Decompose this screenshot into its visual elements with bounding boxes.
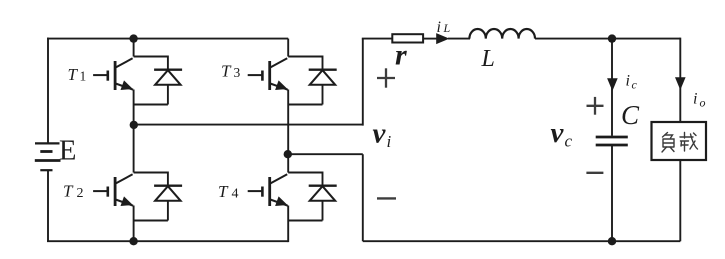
wire: load branch down to load box	[679, 38, 681, 122]
label vc plus	[587, 97, 604, 115]
svg-text:c: c	[632, 78, 638, 92]
svg-text:i: i	[626, 73, 630, 90]
wire: T3 collector leg	[287, 39, 289, 57]
wire: resistor to arrow	[423, 38, 437, 40]
wire: T1 emitter to mid-rail node	[133, 90, 135, 125]
wire: T4 emitter to bottom rail corner	[287, 206, 289, 243]
wire: mid rail to right vertical (vi +)	[134, 124, 363, 126]
wire: junction to right lower vertical (vi -)	[288, 153, 363, 155]
svg-text:T: T	[221, 62, 232, 81]
wire: T2 emitter to bottom rail	[133, 206, 135, 242]
wire: T2 collector leg	[133, 125, 135, 173]
node: top rail / T1 collector junction	[129, 34, 137, 42]
svg-text:o: o	[700, 96, 706, 110]
label vi plus	[377, 68, 395, 87]
transistor T4	[248, 174, 288, 206]
wire: top segment to resistor	[362, 38, 393, 40]
wire: arrow to inductor	[448, 38, 470, 40]
svg-text:T: T	[63, 182, 74, 201]
label load 负载	[662, 133, 698, 153]
label vc minus	[586, 172, 603, 174]
load box (fu zai)	[652, 122, 707, 160]
transistor T2	[93, 174, 133, 206]
svg-text:r: r	[395, 39, 407, 72]
svg-text:c: c	[565, 132, 573, 151]
wire: inductor to capacitor node	[535, 38, 612, 40]
capacitor C	[596, 137, 628, 145]
inductor L	[469, 29, 535, 39]
diode D3 (antiparallel with T3)	[288, 56, 337, 105]
label vi minus	[377, 197, 396, 199]
current arrow io	[675, 77, 686, 90]
svg-text:3: 3	[234, 65, 241, 80]
wire: T4 collector leg	[287, 154, 289, 172]
svg-text:i: i	[693, 91, 697, 108]
wire: node to load corner	[612, 38, 680, 40]
battery E	[35, 143, 61, 170]
wire: left vertical to battery +	[47, 38, 49, 144]
wire: bottom-left DC rail	[47, 240, 288, 242]
diode D4 (antiparallel with T4)	[288, 172, 337, 221]
wire: right upper vertical (bridge output to filter)	[362, 39, 364, 126]
svg-text:T: T	[218, 182, 229, 201]
current arrow iL	[436, 33, 449, 44]
svg-text:E: E	[59, 136, 76, 167]
node: bottom rail T2 emitter junction	[129, 237, 137, 245]
wire: load bottom lead	[679, 160, 681, 241]
node: bottom rail capacitor junction	[608, 237, 616, 245]
wire: right lower vertical (bridge output to bottom rail)	[362, 154, 364, 241]
svg-text:L: L	[481, 46, 495, 72]
wire: capacitor branch upper	[611, 39, 613, 136]
resistor r	[392, 34, 423, 42]
wire: T3 emitter to junction node	[287, 90, 289, 155]
wire: left vertical from battery -	[47, 170, 49, 241]
svg-text:2: 2	[77, 186, 84, 201]
svg-text:T: T	[68, 65, 79, 84]
node: T3/T4 junction	[284, 150, 292, 158]
wire: T1 collector leg	[133, 39, 135, 57]
wire: top-left DC rail	[47, 38, 288, 40]
node: filter output / capacitor junction	[608, 34, 616, 42]
transistor T3	[248, 58, 288, 90]
node: mid rail T1/T2 junction	[130, 121, 138, 129]
svg-text:4: 4	[232, 187, 239, 202]
svg-text:L: L	[443, 21, 451, 35]
svg-text:v: v	[551, 117, 565, 149]
svg-text:i: i	[387, 132, 392, 151]
svg-text:i: i	[437, 19, 441, 36]
current arrow ic	[607, 78, 618, 91]
svg-text:1: 1	[80, 69, 87, 84]
transistor T1	[93, 58, 133, 90]
diode D2 (antiparallel with T2)	[134, 172, 183, 221]
svg-text:C: C	[621, 100, 640, 130]
diode D1 (antiparallel with T1)	[134, 56, 183, 105]
svg-text:v: v	[373, 118, 387, 150]
wire: capacitor branch lower	[611, 145, 613, 241]
wire: bottom-right rail	[363, 240, 681, 242]
